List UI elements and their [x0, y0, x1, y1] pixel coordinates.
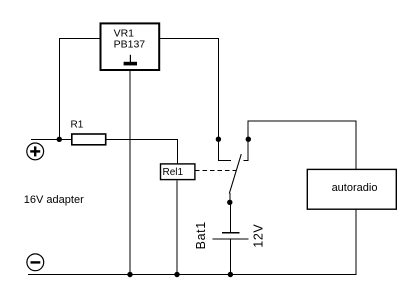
svg-text:autoradio: autoradio [332, 182, 378, 194]
wire R1 output to relay coil drop [106, 139, 178, 141]
wire relay coil to bus [176, 180, 178, 275]
wire pole to battery [229, 202, 231, 233]
voltage regulator U VR1 PB137 [101, 23, 160, 70]
terminal + (16V adapter positive) [27, 143, 44, 160]
battery Bat1 negative plate [213, 238, 249, 240]
relay switch blade [229, 154, 241, 194]
wire to VR1 input [59, 38, 100, 40]
wire relay contact left stub [218, 159, 231, 161]
battery Bat1 positive plate [222, 232, 240, 234]
terminal - (16V adapter negative) [27, 254, 44, 271]
svg-text:Rel1: Rel1 [163, 167, 184, 178]
ground symbol inside VR1 [124, 55, 137, 66]
relay coil Rel1 [161, 164, 195, 180]
svg-text:Bat1: Bat1 [194, 221, 208, 249]
wire blade to pole pin [229, 193, 231, 203]
pin node relay pole [227, 200, 232, 205]
junction node battery on bus [228, 272, 233, 277]
wire plus terminal to R1 [31, 139, 72, 141]
wire junction up to VR1 input level [59, 38, 61, 140]
wire down to relay coil [177, 139, 179, 164]
wire VR1 output to right [160, 38, 219, 40]
wire down to relay contact left [217, 38, 219, 161]
load box autoradio [307, 169, 396, 209]
svg-text:VR1: VR1 [114, 27, 135, 39]
svg-text:16V adapter: 16V adapter [24, 194, 84, 206]
junction node relay coil on bus [174, 272, 179, 277]
wire VR1 ground down to bus [129, 69, 131, 275]
wire ground bus [28, 274, 356, 276]
svg-text:PB137: PB137 [114, 39, 146, 51]
wire relay contact right vertical [247, 121, 249, 161]
junction node at R1 input [57, 137, 62, 142]
junction node VR1 ground on bus [127, 272, 132, 277]
resistor R1 [72, 134, 106, 145]
pin node relay contact right [246, 137, 251, 142]
pin node relay contact left [216, 137, 221, 142]
wire top rail to autoradio [248, 120, 356, 122]
svg-text:12V: 12V [251, 224, 265, 248]
wire relay contact right stub [243, 159, 248, 161]
dashed actuation link Rel1 to blade [195, 170, 236, 172]
wire autoradio vertical feed [355, 121, 357, 276]
wire battery to ground bus [229, 239, 231, 275]
svg-text:R1: R1 [71, 120, 84, 131]
